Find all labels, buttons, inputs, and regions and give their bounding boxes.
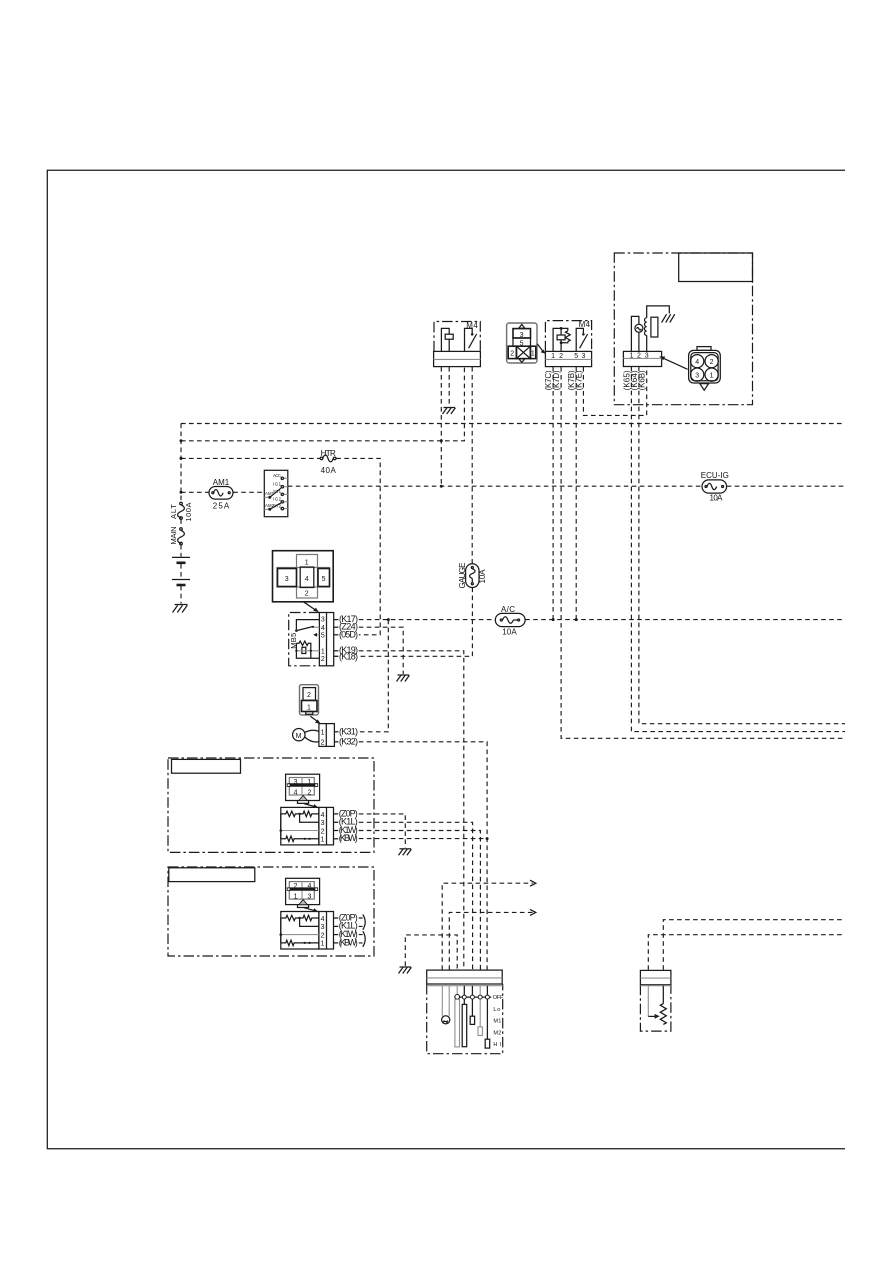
svg-text:(K7E): (K7E) bbox=[574, 370, 583, 390]
stub MB5 pin4 (Z24) bbox=[334, 622, 358, 632]
wire IG1 output bus bbox=[288, 485, 845, 487]
svg-text:1: 1 bbox=[551, 353, 555, 360]
wire relay2 pin2 to right edge bbox=[561, 367, 845, 738]
stub box2 pin2 (K1W) bbox=[334, 929, 358, 939]
svg-text:2: 2 bbox=[321, 656, 325, 663]
svg-text:3: 3 bbox=[285, 576, 289, 583]
svg-text:1: 1 bbox=[710, 373, 714, 380]
wire blower pin2 to right edge bbox=[639, 367, 845, 724]
stub MB5 pin2 (K18) bbox=[334, 652, 358, 662]
fuse AM1 25A bbox=[209, 478, 233, 511]
stub MB5 pin5 (05D) bbox=[334, 629, 358, 639]
blower switch body box bbox=[427, 984, 503, 1054]
svg-text:1: 1 bbox=[307, 705, 311, 712]
wire relay2 pin3 to blower pin3 bbox=[583, 367, 646, 415]
stub box2 pin4 (Z0P) bbox=[334, 913, 358, 923]
svg-text:100A: 100A bbox=[184, 503, 193, 522]
wire (K1L) to blower switch bbox=[359, 822, 473, 970]
svg-text:10A: 10A bbox=[502, 628, 517, 637]
svg-text:4: 4 bbox=[321, 625, 325, 632]
heater control box 1 title block bbox=[172, 759, 241, 773]
svg-text:1: 1 bbox=[308, 779, 312, 786]
wire bus line 1 (top feed to right edge) bbox=[181, 423, 845, 425]
wire (K32) to blower switch bbox=[359, 742, 487, 970]
blower resistor connector bar bbox=[640, 970, 671, 984]
svg-text:3: 3 bbox=[645, 353, 649, 360]
svg-text:1: 1 bbox=[321, 730, 325, 737]
connector key diagram for MB5 (1/3-4-5/2 cross) bbox=[273, 551, 334, 612]
svg-text:5: 5 bbox=[321, 633, 325, 640]
svg-text:3: 3 bbox=[581, 353, 585, 360]
wire (Z0P) to ground bbox=[359, 814, 406, 848]
svg-text:M: M bbox=[296, 733, 302, 740]
svg-text:1: 1 bbox=[321, 648, 325, 655]
stub servo pin1 (K31) bbox=[334, 726, 358, 736]
wire blower resistor pin2 to right edge bbox=[663, 920, 845, 970]
svg-text:2: 2 bbox=[321, 828, 325, 835]
svg-text:AM1: AM1 bbox=[213, 478, 230, 487]
stub servo pin2 (K32) bbox=[334, 736, 358, 746]
svg-text:1: 1 bbox=[531, 351, 535, 358]
svg-text:2: 2 bbox=[305, 591, 309, 598]
wire (K1W) to blower switch bbox=[359, 831, 481, 970]
svg-text:(K32): (K32) bbox=[339, 736, 358, 746]
svg-text:IG1: IG1 bbox=[273, 481, 282, 486]
svg-text:2: 2 bbox=[307, 692, 311, 699]
svg-text:ECU-IG: ECU-IG bbox=[701, 471, 729, 480]
wire blower pin1 to right edge bbox=[631, 367, 845, 732]
wire battery feed vertical bus bbox=[180, 424, 182, 604]
blower unit connector bar bbox=[623, 351, 661, 366]
component heater control 2 resistor network bbox=[280, 912, 334, 950]
ignition switch bbox=[264, 470, 288, 516]
svg-text:25A: 25A bbox=[213, 502, 230, 511]
wire blower switch pin1 page arrow bbox=[442, 880, 536, 970]
svg-text:2: 2 bbox=[321, 932, 325, 939]
blower motor symbol bbox=[631, 316, 643, 351]
blower switch illumination lamp bbox=[442, 986, 450, 1024]
svg-text:5: 5 bbox=[322, 576, 326, 583]
blower switch contact M2 bbox=[478, 986, 482, 1036]
junction line2 / relay1 pin1 bbox=[440, 439, 443, 442]
svg-text:M2: M2 bbox=[493, 1031, 501, 1037]
blower switch OFF contact row bbox=[455, 986, 491, 1047]
wire bus line 2 to relay M4-1 contact pin 3 bbox=[181, 367, 464, 441]
stub box1 pin2 (K1W) bbox=[334, 825, 358, 835]
junction battery bus to line2 bbox=[180, 439, 183, 442]
wire relay1 pin1 coil to IG1 bus bbox=[440, 367, 442, 486]
wire (K19) to blower switch bbox=[359, 651, 464, 970]
svg-text:3: 3 bbox=[321, 924, 325, 931]
blower motor choke coil and case ground bbox=[645, 306, 675, 352]
wire blower resistor pin1 to right edge bbox=[648, 935, 845, 970]
junction IG1 bus / relay1 pin1 drop bbox=[440, 485, 443, 488]
blower unit enclosure box bbox=[614, 253, 752, 405]
svg-text:10A: 10A bbox=[478, 569, 487, 584]
ground relay1 bbox=[443, 408, 456, 415]
svg-text:M4: M4 bbox=[579, 320, 591, 329]
battery bbox=[172, 557, 190, 585]
label (K7E) relay2 pin3 bbox=[574, 370, 583, 390]
wire (KBW) joins (K32) bbox=[359, 838, 487, 840]
svg-text:ACC: ACC bbox=[273, 473, 281, 478]
svg-text:2: 2 bbox=[510, 351, 514, 358]
fuse GAUGE 10A bbox=[458, 563, 487, 589]
wire AM1 fuse feed bbox=[181, 491, 264, 493]
svg-text:3: 3 bbox=[321, 616, 325, 623]
svg-text:2: 2 bbox=[308, 790, 312, 797]
blower switch contact HI bbox=[485, 986, 490, 1048]
svg-text:4: 4 bbox=[305, 576, 309, 583]
svg-text:2: 2 bbox=[559, 353, 563, 360]
component heater control 1 resistor network bbox=[280, 807, 334, 845]
blower switch contact Lo bbox=[462, 986, 467, 1047]
stub MB5 pin1 (K19) bbox=[334, 645, 358, 655]
relay U1 (M4) heater relay no.1 bbox=[434, 321, 481, 367]
label (K7D) relay2 pin2 bbox=[552, 370, 561, 390]
wire blower switch pin2 page arrow bbox=[449, 909, 536, 969]
fusible link MAIN bbox=[169, 527, 184, 545]
wire HTR feed line and drop to MB5 (05D) bbox=[181, 458, 380, 634]
blower resistor element bbox=[648, 986, 666, 1025]
svg-text:IG2: IG2 bbox=[273, 497, 282, 502]
svg-text:1: 1 bbox=[321, 837, 325, 844]
svg-text:ALT: ALT bbox=[169, 504, 178, 519]
svg-text:2: 2 bbox=[294, 883, 298, 890]
svg-text:GAUGE: GAUGE bbox=[458, 563, 467, 589]
svg-text:2: 2 bbox=[321, 740, 325, 747]
blower 4-pin round connector view bbox=[659, 347, 720, 391]
svg-text:4: 4 bbox=[308, 883, 312, 890]
connector key diagram for relay (2-X-1 / 5 / 3) bbox=[507, 323, 546, 363]
svg-text:3: 3 bbox=[308, 894, 312, 901]
blower switch contact M1 bbox=[470, 986, 474, 1025]
fuse A/C 10A bbox=[495, 605, 525, 637]
component MB5 heater sub assembly bbox=[289, 613, 334, 666]
svg-text:3: 3 bbox=[321, 820, 325, 827]
svg-text:ST2: ST2 bbox=[273, 503, 282, 508]
svg-text:(K6B): (K6B) bbox=[638, 370, 647, 390]
wire relay1 pin4 to GAUGE fuse and (K18) bbox=[359, 367, 473, 656]
wire stubs box2 with grouping marks bbox=[359, 915, 365, 947]
stub box1 pin4 (Z0P) bbox=[334, 808, 358, 818]
svg-text:1: 1 bbox=[305, 559, 309, 566]
heater control box 1 bbox=[168, 758, 374, 852]
svg-text:(KBW): (KBW) bbox=[339, 937, 358, 947]
fuse ECU-IG 10A bbox=[701, 471, 729, 503]
stub MB5 pin3 (K17) bbox=[334, 614, 358, 624]
junction battery bus to AM1 line bbox=[180, 491, 183, 494]
svg-text:Lo: Lo bbox=[493, 1007, 500, 1013]
svg-text:(05D): (05D) bbox=[339, 629, 358, 639]
label (K7C) relay2 pin1 bbox=[544, 370, 553, 390]
svg-text:4: 4 bbox=[294, 790, 298, 797]
svg-text:4: 4 bbox=[321, 916, 325, 923]
label (K6B) blower pin3 bbox=[638, 370, 647, 390]
wire relay2 pin1 to A/C line bbox=[552, 367, 555, 621]
ground blower switch illumination bbox=[399, 967, 412, 974]
svg-text:4: 4 bbox=[321, 812, 325, 819]
svg-text:2: 2 bbox=[710, 359, 714, 366]
wire (K17) A/C line to right edge bbox=[359, 619, 845, 621]
blower unit title block bbox=[679, 253, 753, 282]
svg-text:(K18): (K18) bbox=[339, 652, 358, 662]
wire relay2 pin5 to A/C line bbox=[575, 367, 578, 621]
svg-text:MAIN: MAIN bbox=[169, 527, 178, 545]
junction (K32)/(KBW) bbox=[486, 837, 489, 840]
svg-text:A/C: A/C bbox=[501, 605, 515, 614]
wire relay1 pin2 coil to ground bbox=[448, 367, 450, 407]
stub box2 pin1 (KBW) bbox=[334, 937, 358, 947]
heater control box 2 bbox=[168, 867, 374, 956]
svg-text:3: 3 bbox=[294, 779, 298, 786]
wire blower switch illumination ground line bbox=[405, 935, 457, 970]
connector key diagram for servo motor (2/1) bbox=[300, 685, 321, 724]
relay U2 (M4) heater relay no.2 bbox=[545, 320, 591, 367]
ground (Z24) bbox=[397, 675, 410, 682]
svg-text:(K7D): (K7D) bbox=[552, 370, 561, 390]
junction (K17) line / drop to (K31) bbox=[387, 618, 390, 621]
svg-text:HTR: HTR bbox=[321, 449, 336, 458]
svg-text:1: 1 bbox=[321, 941, 325, 948]
stub box2 pin3 (K1L) bbox=[334, 921, 358, 931]
wire (Z24) to ground bbox=[359, 627, 403, 674]
svg-text:(KBW): (KBW) bbox=[339, 833, 358, 843]
stub box1 pin3 (K1L) bbox=[334, 817, 358, 827]
wire (K31) drop from A/C line bbox=[359, 620, 389, 732]
svg-text:10A: 10A bbox=[710, 493, 724, 502]
svg-text:2: 2 bbox=[637, 353, 641, 360]
connector key diagram box2 (2 4 / 1 3) bbox=[286, 878, 320, 912]
label (K65) blower pin1 bbox=[622, 370, 631, 390]
blower resistor body box bbox=[640, 985, 671, 1031]
blower switch connector bar bbox=[427, 970, 503, 984]
svg-text:M1: M1 bbox=[493, 1019, 501, 1025]
servo motor M bbox=[293, 724, 335, 747]
svg-text:5: 5 bbox=[574, 353, 578, 360]
label (K7B) relay2 pin5 bbox=[567, 370, 576, 390]
stub box1 pin1 (KBW) bbox=[334, 833, 358, 843]
svg-text:1: 1 bbox=[629, 353, 633, 360]
ground (Z0P) bbox=[399, 849, 412, 856]
heater control box 2 title block bbox=[169, 868, 255, 882]
svg-text:1: 1 bbox=[294, 894, 298, 901]
ground battery bbox=[173, 605, 188, 613]
label (K64) blower pin2 bbox=[630, 370, 639, 390]
blower switch position labels bbox=[493, 995, 504, 1048]
svg-text:4: 4 bbox=[695, 359, 699, 366]
svg-text:3: 3 bbox=[695, 373, 699, 380]
svg-text:(K31): (K31) bbox=[339, 726, 358, 736]
svg-text:40A: 40A bbox=[321, 466, 337, 475]
connector key diagram box1 (3 1 / 4 2) bbox=[286, 774, 320, 808]
fusible link ALT 100A bbox=[169, 502, 193, 521]
svg-text:OFF: OFF bbox=[493, 995, 504, 1001]
junction battery bus to HTR line bbox=[180, 457, 183, 460]
fuse HTR 40A bbox=[320, 449, 336, 475]
